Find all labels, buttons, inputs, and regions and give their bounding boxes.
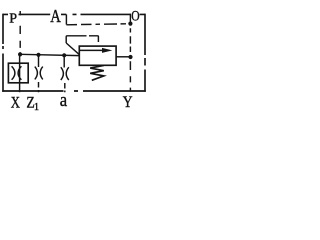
orifice Z1 arcs: [35, 67, 43, 80]
label P: [8, 11, 19, 26]
svg-text:X: X: [11, 94, 21, 111]
pilot line L-shape over valve (solid part): [66, 36, 86, 43]
wire: O port vertical solid from top edge to node A1: [129, 14, 131, 24]
node X1 junction dot: [18, 52, 22, 56]
enclosure top edge: [3, 13, 145, 15]
label O: [131, 9, 139, 25]
valve V1 body: [79, 46, 116, 65]
node O1 junction dot (A-line meets O line): [128, 22, 132, 26]
node Y1 junction dot (valve outlet meets Y line): [128, 55, 132, 59]
enclosure right edge: [144, 14, 146, 92]
orifice (X) arcs: [12, 66, 22, 80]
orifice box B1: [8, 63, 28, 83]
wire: O/Y dashed vertical from node A1 down to bottom edge: [129, 28, 131, 91]
valve flow arrow: [80, 49, 104, 51]
pilot diagonal into valve body: [66, 43, 79, 55]
wire: A dashed horizontal to node A1: [66, 24, 126, 25]
pilot dashed segment into valve top: [89, 36, 98, 42]
wire: X branch vertical through orifice box to bottom edge: [19, 54, 21, 92]
svg-text:P: P: [9, 11, 17, 26]
node a junction dot: [62, 53, 66, 57]
svg-text:1: 1: [34, 102, 39, 113]
wire: valve outlet to node O1: [116, 56, 130, 58]
orifice a arcs: [61, 67, 69, 80]
svg-text:a: a: [60, 90, 68, 111]
wire: a dashed stub to bottom edge: [64, 83, 66, 92]
spring: [90, 65, 104, 80]
wire: a branch stub: [63, 55, 65, 67]
svg-text:O: O: [131, 9, 139, 25]
wire: Z1 branch stub: [38, 55, 40, 67]
enclosure left edge: [2, 14, 4, 92]
enclosure bottom edge: [2, 90, 146, 92]
wire: main horizontal line from node X1 to valve inlet: [20, 54, 79, 55]
wire: A port vertical from top edge: [65, 14, 67, 24]
wire: Z1 dashed stub to bottom edge: [38, 82, 40, 92]
wire: X pilot dashed vertical from top edge to node X1: [19, 11, 21, 54]
node Z1 junction dot: [36, 53, 40, 57]
svg-text:Y: Y: [123, 94, 133, 111]
svg-text:A: A: [50, 6, 61, 26]
label A: [50, 6, 61, 26]
